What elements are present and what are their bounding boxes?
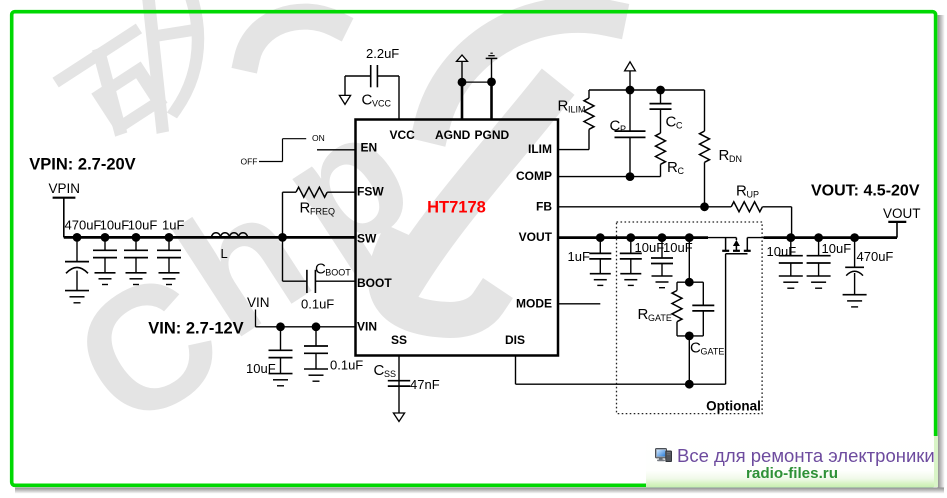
svg-text:10uF: 10uF: [767, 244, 797, 259]
svg-text:GATE: GATE: [648, 313, 672, 323]
svg-text:10uF: 10uF: [635, 240, 665, 255]
svg-text:C: C: [610, 118, 621, 135]
svg-text:1uF: 1uF: [162, 218, 184, 233]
svg-text:SS: SS: [384, 369, 396, 379]
svg-text:SS: SS: [391, 333, 407, 347]
svg-text:DN: DN: [729, 154, 742, 164]
svg-text:GATE: GATE: [701, 346, 725, 356]
svg-text:FSW: FSW: [357, 184, 384, 198]
svg-text:VIN: VIN: [247, 295, 270, 310]
svg-text:47nF: 47nF: [410, 377, 440, 392]
svg-text:L: L: [221, 246, 228, 261]
svg-text:VPIN: VPIN: [49, 181, 81, 196]
svg-text:R: R: [667, 159, 678, 176]
svg-text:VOUT: VOUT: [519, 230, 553, 244]
svg-text:VOUT: 4.5-20V: VOUT: 4.5-20V: [811, 183, 920, 200]
svg-text:VCC: VCC: [372, 98, 392, 108]
svg-text:PGND: PGND: [475, 128, 510, 142]
svg-text:AGND: AGND: [435, 128, 471, 142]
svg-text:C: C: [678, 166, 685, 176]
svg-text:10uF: 10uF: [246, 361, 276, 376]
svg-text:FB: FB: [536, 199, 552, 213]
svg-text:R: R: [638, 306, 649, 323]
svg-text:VIN: VIN: [357, 319, 377, 333]
svg-text:C: C: [690, 339, 701, 356]
svg-text:ILIM: ILIM: [528, 142, 552, 156]
svg-text:MODE: MODE: [516, 296, 552, 310]
svg-text:10uF: 10uF: [822, 241, 852, 256]
svg-text:VOUT: VOUT: [883, 206, 921, 221]
svg-text:BOOT: BOOT: [357, 276, 392, 290]
svg-text:10uF: 10uF: [128, 218, 158, 233]
svg-text:470uF: 470uF: [65, 218, 102, 233]
svg-text:HT7178: HT7178: [427, 198, 486, 216]
svg-text:SW: SW: [357, 232, 377, 246]
svg-text:C: C: [374, 362, 385, 379]
svg-text:DIS: DIS: [505, 333, 525, 347]
svg-text:VPIN: 2.7-20V: VPIN: 2.7-20V: [29, 155, 135, 173]
svg-text:R: R: [736, 183, 747, 200]
svg-text:P: P: [620, 124, 626, 134]
svg-text:R: R: [300, 200, 311, 217]
svg-text:R: R: [558, 97, 569, 114]
svg-text:0.1uF: 0.1uF: [330, 357, 363, 372]
svg-text:VCC: VCC: [390, 128, 416, 142]
svg-text:470uF: 470uF: [857, 249, 894, 264]
svg-text:R: R: [719, 147, 730, 164]
svg-text:C: C: [666, 114, 677, 131]
svg-text:UP: UP: [747, 190, 760, 200]
svg-text:EN: EN: [361, 141, 378, 155]
svg-text:C: C: [676, 121, 683, 131]
svg-text:FREQ: FREQ: [310, 207, 335, 217]
svg-text:COMP: COMP: [516, 169, 552, 183]
svg-text:VIN: 2.7-12V: VIN: 2.7-12V: [148, 320, 243, 338]
svg-text:C: C: [362, 92, 373, 109]
svg-text:ILIM: ILIM: [568, 104, 586, 114]
svg-text:10uF: 10uF: [100, 218, 130, 233]
svg-text:1uF: 1uF: [568, 249, 590, 264]
svg-text:Optional: Optional: [706, 398, 761, 413]
svg-text:OFF: OFF: [241, 157, 258, 167]
svg-text:10uF: 10uF: [663, 240, 693, 255]
svg-text:2.2uF: 2.2uF: [366, 46, 399, 61]
svg-text:0.1uF: 0.1uF: [301, 296, 334, 311]
svg-text:ON: ON: [312, 133, 325, 143]
svg-text:BOOT: BOOT: [325, 267, 351, 277]
